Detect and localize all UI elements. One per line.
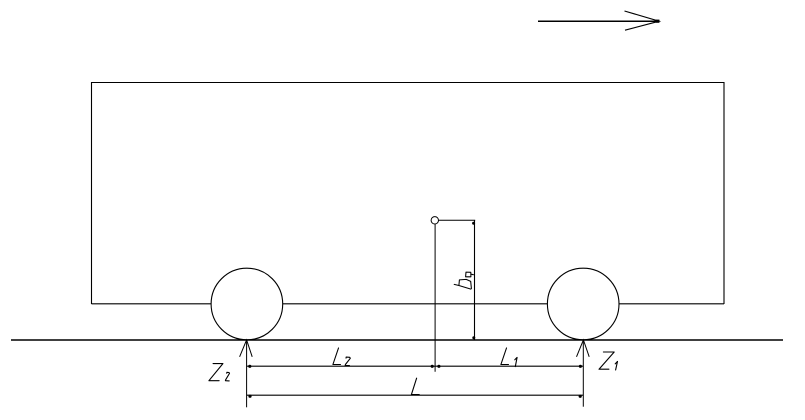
centre-of-gravity marker circle [431, 217, 438, 224]
front wheel (right) [547, 268, 619, 340]
right wheel reaction arrow (Z1) [577, 340, 590, 357]
label L1 [501, 348, 517, 367]
left wheel reaction arrow (Z2) [240, 340, 253, 357]
label Z1 [599, 352, 618, 370]
L (wheelbase) dimension line [247, 395, 584, 398]
label L2 [333, 348, 350, 366]
left extension line [246, 340, 248, 407]
hg dimension line [472, 221, 475, 340]
ground line [11, 339, 783, 341]
label hg (rotated) [454, 272, 473, 289]
label L [411, 378, 419, 394]
CG vertical line [434, 224, 436, 372]
rear wheel (left) [211, 268, 283, 340]
direction-of-motion arrow [538, 11, 659, 30]
CG to hg-dimension connector [439, 219, 476, 221]
right extension line [582, 340, 584, 407]
vehicle body rectangle [92, 83, 725, 305]
L1 dimension line [435, 365, 583, 368]
label Z2 [209, 364, 230, 381]
L2 dimension line [247, 365, 436, 368]
